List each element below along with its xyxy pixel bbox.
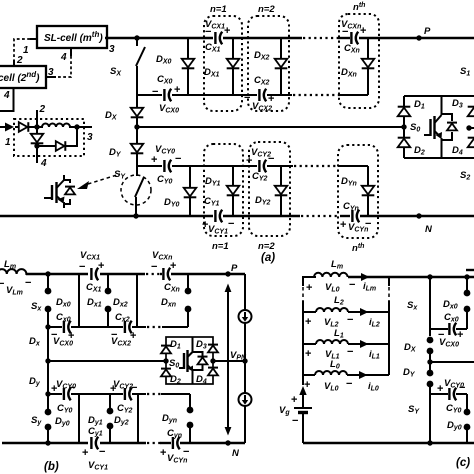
- svg-text:3: 3: [109, 44, 115, 55]
- svg-text:Cx2: Cx2: [115, 312, 130, 324]
- vertical diode of detail cell: [36, 127, 38, 133]
- IGBT S0 (b): [179, 337, 193, 384]
- svg-text:CY1: CY1: [204, 196, 220, 208]
- switch Sx (b) open: [45, 271, 50, 276]
- svg-text:Dx1: Dx1: [87, 297, 102, 309]
- svg-text:−: −: [0, 278, 4, 290]
- rail CX (a) y=95: [137, 94, 162, 96]
- svg-text:Dyn: Dyn: [162, 413, 177, 425]
- diode DY1: [227, 186, 240, 196]
- SL-cell (2nd) block box (cut at left edge): [0, 66, 46, 88]
- capacitor CX1: [215, 32, 222, 45]
- inductor Lm (b): [0, 269, 27, 274]
- svg-text:Dxn: Dxn: [161, 297, 176, 309]
- switch Dx0 (b) closed: [78, 274, 80, 327]
- svg-text:+: +: [51, 383, 57, 395]
- svg-text:4: 4: [60, 52, 67, 63]
- svg-text:CXn: CXn: [164, 282, 180, 294]
- svg-text:D4: D4: [452, 145, 463, 157]
- capacitor CY0: [164, 160, 171, 173]
- svg-text:D1: D1: [414, 99, 425, 111]
- svg-text:Vg: Vg: [279, 405, 290, 417]
- diode D1: [398, 107, 411, 117]
- svg-text:+: +: [340, 219, 346, 231]
- switch SY (c) closed: [429, 384, 431, 443]
- svg-text:iL0: iL0: [368, 381, 379, 393]
- diode D2 (b): [161, 369, 171, 377]
- svg-text:2: 2: [39, 104, 46, 115]
- bypass diode of detail cell: [37, 127, 77, 146]
- inductor L of detail cell: [37, 124, 77, 127]
- svg-text:−: −: [346, 378, 352, 390]
- svg-text:DY0: DY0: [164, 197, 180, 209]
- svg-text:Cx0: Cx0: [444, 312, 459, 324]
- svg-text:+: +: [305, 348, 311, 360]
- capacitor CYn: [352, 210, 359, 223]
- svg-text:D2: D2: [414, 145, 425, 157]
- svg-text:−: −: [79, 261, 85, 273]
- svg-text:−: −: [342, 26, 348, 38]
- svg-text:1: 1: [23, 45, 29, 56]
- svg-text:DY: DY: [403, 367, 416, 379]
- diode DXn: [362, 59, 375, 69]
- svg-text:+: +: [291, 394, 297, 406]
- svg-text:+: +: [151, 154, 157, 166]
- svg-text:+: +: [224, 25, 230, 37]
- svg-text:Cyn: Cyn: [167, 428, 182, 440]
- bottom rail N (a) y=216: [0, 215, 213, 217]
- svg-text:L2: L2: [334, 295, 344, 307]
- capacitor CX0: [164, 89, 171, 102]
- svg-text:Dx2: Dx2: [113, 297, 128, 309]
- svg-text:VL0: VL0: [325, 282, 340, 294]
- svg-text:+: +: [110, 383, 116, 395]
- svg-text:DX2: DX2: [254, 50, 270, 62]
- svg-text:−: −: [347, 346, 353, 358]
- svg-text:P: P: [424, 26, 431, 37]
- svg-text:−: −: [25, 277, 31, 289]
- svg-text:VL0: VL0: [324, 381, 339, 393]
- svg-text:+: +: [170, 260, 176, 272]
- node dot detail cell bottom: [34, 143, 39, 148]
- svg-text:n=2: n=2: [258, 241, 275, 252]
- svg-text:SX: SX: [110, 66, 122, 78]
- switch Dy0 (b) closed: [78, 394, 80, 443]
- switch Dx2 (b) closed: [136, 274, 138, 327]
- clipped cap plate top right (c): [466, 269, 474, 271]
- dashed wire pin1 to pin2 of 2nd cell: [14, 39, 30, 60]
- inductor L2 row (c): [303, 311, 316, 313]
- svg-text:DY1: DY1: [205, 176, 221, 188]
- switch SY with dashed circle: [121, 175, 151, 205]
- dashed wire pin4 to pin3 of 2nd cell: [56, 56, 71, 77]
- svg-text:nth: nth: [353, 2, 365, 13]
- capacitor CX1 (b): [91, 268, 98, 281]
- svg-text:Cy1: Cy1: [88, 426, 103, 438]
- pin 3 wire of detail cell: [77, 126, 92, 128]
- left source line (c): [303, 277, 316, 286]
- svg-text:S0: S0: [410, 122, 420, 134]
- svg-text:4: 4: [40, 158, 47, 169]
- current source bottom (b): [239, 393, 252, 406]
- svg-text:DY2: DY2: [255, 195, 271, 207]
- svg-text:(a): (a): [261, 252, 275, 264]
- svg-text:−: −: [99, 446, 105, 458]
- node DX-DY junction: [134, 124, 139, 129]
- svg-text:D2: D2: [170, 374, 181, 386]
- node S0 right (b): [210, 358, 215, 363]
- switch Dy0 (c) open: [466, 394, 468, 412]
- rail CY (a) y=166: [137, 165, 162, 167]
- svg-text:VCX0: VCX0: [159, 103, 179, 115]
- node dot detail cell right: [74, 124, 79, 129]
- cell n=1 bottom dashed box: [204, 144, 243, 236]
- svg-text:CY0: CY0: [157, 174, 173, 186]
- switch Dy1 (b) open: [109, 394, 111, 411]
- svg-text:(b): (b): [44, 461, 59, 473]
- pin 1 stub of SL-cell m: [30, 38, 37, 40]
- switch SX: [134, 35, 139, 40]
- pin 2 wire of detail cell: [36, 110, 38, 127]
- svg-text:−: −: [205, 26, 211, 38]
- svg-text:+: +: [360, 25, 366, 37]
- svg-text:Dx0: Dx0: [56, 297, 71, 309]
- cell n-th top dashed box: [339, 14, 379, 108]
- svg-text:VLm: VLm: [6, 285, 23, 297]
- switch DX (c) open: [427, 337, 434, 344]
- svg-text:S2: S2: [460, 170, 470, 182]
- svg-text:(c): (c): [456, 457, 470, 469]
- node dot detail cell left: [34, 124, 39, 129]
- capacitor Cyn (b): [173, 437, 180, 450]
- antiparallel diode of S0 (b): [193, 352, 203, 356]
- rail CY0 (c): [430, 393, 448, 395]
- svg-text:DXn: DXn: [341, 67, 357, 79]
- svg-text:+: +: [457, 329, 463, 341]
- svg-text:VCY0: VCY0: [155, 144, 175, 156]
- svg-text:iL2: iL2: [369, 317, 380, 329]
- node N: [416, 213, 421, 218]
- svg-text:Dx0: Dx0: [443, 299, 458, 311]
- capacitor Cx0 (c): [449, 323, 456, 336]
- svg-text:nth: nth: [352, 243, 364, 254]
- svg-text:Dy2: Dy2: [114, 415, 129, 427]
- inductor L1 row (c): [303, 343, 316, 345]
- rail CX0 (c): [430, 328, 448, 330]
- svg-text:3: 3: [87, 132, 93, 143]
- cell n=1 top dashed box: [204, 16, 242, 111]
- diode D4 (clipped): [468, 138, 474, 148]
- svg-text:SY: SY: [114, 169, 126, 181]
- SL-cell internal detail dashed box: [14, 119, 84, 156]
- svg-text:D1: D1: [170, 339, 181, 351]
- diode DX: [136, 95, 138, 107]
- S0 switch block (a): [404, 96, 474, 158]
- battery Vg: [294, 407, 312, 409]
- svg-text:CY0: CY0: [446, 403, 462, 415]
- switch Dy2 (b) closed: [137, 394, 139, 443]
- VPN rail from S0 to load (b): [213, 360, 245, 362]
- svg-text:CYn: CYn: [343, 201, 359, 213]
- rail CY dotted continuation: [294, 165, 338, 167]
- IGBT S0 (a): [424, 96, 442, 158]
- diode D3 (b): [208, 345, 218, 353]
- diode D3 (clipped): [468, 107, 474, 117]
- svg-text:VL2: VL2: [324, 317, 339, 329]
- rail CX (b) y=327: [48, 326, 62, 328]
- switch Dyn (b) open: [189, 394, 191, 410]
- svg-text:DX: DX: [404, 342, 417, 354]
- svg-text:VCX2: VCX2: [111, 336, 131, 348]
- capacitor CXn (b): [163, 268, 170, 281]
- svg-text:3: 3: [48, 67, 54, 78]
- diode DX0: [182, 59, 195, 69]
- svg-text:S1: S1: [460, 66, 470, 78]
- dashed arrow from SY to IGBT: [88, 174, 120, 184]
- svg-text:+: +: [437, 383, 443, 395]
- svg-text:−: −: [175, 153, 181, 165]
- pin 4 wire of detail cell: [36, 146, 38, 163]
- svg-text:−: −: [131, 382, 137, 394]
- bottom rail N (b) y=443: [2, 442, 88, 444]
- bottom rail (c): [303, 442, 474, 444]
- svg-text:L0: L0: [330, 359, 340, 371]
- svg-text:D4: D4: [196, 374, 207, 386]
- top rail dotted continuation (a): [303, 37, 338, 39]
- svg-text:4: 4: [3, 90, 10, 101]
- right collector line (c): [388, 277, 390, 286]
- capacitor Cy1 (b): [91, 437, 98, 450]
- capacitor CY1: [215, 210, 222, 223]
- diode D1 (b): [161, 346, 171, 354]
- svg-text:+: +: [246, 155, 252, 167]
- svg-text:−: −: [347, 314, 353, 326]
- node N (b): [225, 440, 230, 445]
- diode DY2: [275, 186, 288, 196]
- svg-text:+: +: [98, 260, 104, 272]
- svg-text:−: −: [349, 279, 355, 291]
- switch Dx (b) closed: [47, 327, 49, 361]
- svg-text:Lm: Lm: [331, 259, 343, 271]
- antiparallel diode of S0 (a): [442, 114, 453, 121]
- inductor Lm row (c) = top rail: [314, 273, 348, 277]
- switch Dxn (b) open: [187, 274, 189, 291]
- rail CY (b) y=394: [45, 391, 50, 396]
- top rail P (a): [105, 37, 213, 39]
- middle rail (b): [48, 360, 166, 362]
- svg-text:Dy1: Dy1: [88, 415, 103, 427]
- switch ladder (c): SX closed: [427, 274, 432, 279]
- capacitor Cy0 (b): [64, 388, 71, 401]
- svg-text:L1: L1: [334, 328, 344, 340]
- svg-text:iLm: iLm: [363, 281, 376, 293]
- svg-text:+: +: [174, 84, 180, 96]
- svg-text:1: 1: [5, 137, 11, 148]
- diode DY0: [184, 188, 197, 198]
- bottom rail dotted continuation: [301, 215, 340, 217]
- svg-text:Dx: Dx: [29, 336, 41, 348]
- svg-text:DY: DY: [109, 147, 122, 159]
- svg-text:+: +: [306, 282, 312, 294]
- svg-text:CX1: CX1: [205, 42, 221, 54]
- svg-text:VCY1: VCY1: [208, 224, 228, 236]
- diode DYn: [362, 186, 375, 196]
- capacitor CXn: [351, 32, 358, 45]
- middle rail (a) y=127: [137, 126, 404, 128]
- node P: [416, 35, 421, 40]
- capacitor CX2: [259, 89, 266, 102]
- svg-text:+: +: [268, 93, 274, 105]
- svg-text:−: −: [459, 382, 465, 394]
- diode D4 (b): [208, 368, 218, 376]
- IGBT symbol (legend): [44, 175, 75, 208]
- diode DY: [136, 127, 138, 143]
- rail CX dotted continuation: [293, 94, 340, 96]
- inductor L0 row (c): [303, 374, 315, 376]
- node S0 left (b): [163, 358, 168, 363]
- svg-text:CX0: CX0: [157, 74, 173, 86]
- svg-text:n=1: n=1: [210, 4, 227, 15]
- svg-text:−: −: [244, 92, 250, 104]
- svg-text:N: N: [232, 448, 240, 459]
- svg-text:2: 2: [16, 55, 23, 66]
- node S0 right with stub: [466, 125, 471, 130]
- capacitor Cy0 (c): [449, 388, 456, 401]
- svg-text:Lm: Lm: [4, 259, 16, 271]
- svg-text:CX1: CX1: [86, 282, 102, 294]
- diode DX2: [275, 59, 288, 69]
- SL-cell (m-th) block box: [37, 26, 107, 48]
- capacitor Cy2 (b): [125, 388, 132, 401]
- svg-text:−: −: [69, 382, 75, 394]
- svg-text:+: +: [160, 447, 166, 459]
- svg-text:n=1: n=1: [212, 241, 229, 252]
- pin 4 wire of 2nd cell: [0, 88, 14, 111]
- svg-text:−: −: [151, 261, 157, 273]
- Vg up arrow: [299, 386, 306, 395]
- svg-text:Dy0: Dy0: [447, 420, 462, 432]
- middle rail (c): [427, 359, 432, 364]
- S0 block box (b): [166, 337, 213, 384]
- svg-text:VCY1: VCY1: [88, 460, 108, 472]
- svg-text:CX2: CX2: [254, 75, 270, 87]
- svg-text:Dy: Dy: [29, 376, 41, 388]
- cell n=2 bottom dashed box: [249, 142, 290, 236]
- svg-text:P: P: [231, 263, 238, 274]
- switch DY (c) open: [427, 370, 434, 377]
- capacitor Cx0 (b): [64, 321, 71, 334]
- svg-text:CY0: CY0: [57, 403, 73, 415]
- svg-text:DX1: DX1: [204, 67, 220, 79]
- cell n-th bottom dashed box: [338, 145, 378, 238]
- pin 4 stub of SL-cell m: [70, 48, 72, 56]
- diode D2: [398, 138, 411, 148]
- VPN measurement arrow (b): [227, 289, 229, 430]
- diode D (input) of detail cell: [15, 126, 37, 128]
- svg-text:Sx: Sx: [31, 301, 42, 313]
- svg-text:+: +: [82, 447, 88, 459]
- svg-text:D3: D3: [452, 98, 463, 110]
- top rail P (b): [26, 273, 88, 275]
- svg-text:−: −: [268, 153, 274, 165]
- switch Dx0 (c) open: [464, 274, 469, 279]
- switch Dy (b) closed: [47, 361, 49, 394]
- svg-text:+: +: [304, 379, 310, 391]
- svg-text:iL1: iL1: [369, 349, 380, 361]
- switch Dx1 (b) open: [107, 274, 109, 291]
- svg-text:Sx: Sx: [407, 300, 418, 312]
- pin 3 stub of 2nd cell: [46, 76, 56, 78]
- svg-text:DYn: DYn: [341, 176, 357, 188]
- svg-text:−: −: [152, 86, 158, 98]
- capacitor Cx2 (b): [125, 321, 132, 334]
- svg-text:D3: D3: [196, 339, 207, 351]
- svg-text:+: +: [305, 316, 311, 328]
- svg-text:Sy: Sy: [31, 415, 42, 427]
- svg-text:N: N: [425, 224, 433, 235]
- node P (b): [225, 271, 230, 276]
- diode DX1: [227, 59, 240, 69]
- svg-text:n=2: n=2: [258, 4, 275, 15]
- load line (b): [244, 274, 246, 310]
- svg-text:CY2: CY2: [117, 403, 133, 415]
- svg-text:−: −: [292, 415, 298, 427]
- capacitor CY2: [259, 160, 266, 173]
- svg-text:Cx0: Cx0: [56, 312, 71, 324]
- svg-text:−: −: [183, 446, 189, 458]
- svg-text:SY: SY: [408, 404, 420, 416]
- current source top (b): [239, 310, 252, 323]
- svg-text:DX0: DX0: [156, 54, 172, 66]
- cell n=2 top dashed box: [248, 16, 289, 111]
- input arrow pin 1 of detail cell: [0, 126, 12, 128]
- svg-text:DX: DX: [105, 110, 118, 122]
- node S0 left: [401, 124, 406, 129]
- svg-text:−: −: [228, 218, 234, 230]
- svg-text:Dy0: Dy0: [55, 416, 70, 428]
- switch Sy (b) open: [47, 394, 49, 412]
